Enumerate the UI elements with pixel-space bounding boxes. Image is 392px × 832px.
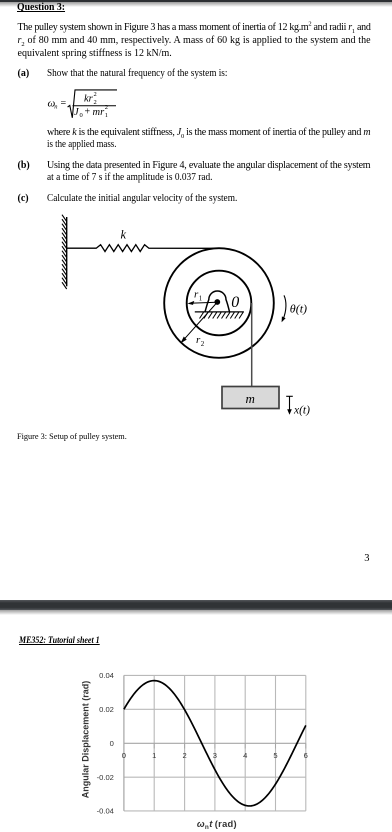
svg-text:0.04: 0.04 [99, 671, 114, 680]
svg-text:0: 0 [122, 751, 126, 760]
svg-text:0: 0 [110, 739, 114, 748]
svg-text:-0.02: -0.02 [97, 773, 114, 782]
svg-text:1: 1 [152, 751, 156, 760]
svg-text:2: 2 [182, 751, 186, 760]
svg-text:0.02: 0.02 [99, 705, 114, 714]
svg-text:3: 3 [213, 751, 217, 760]
svg-text:(rad): (rad) [212, 819, 237, 829]
svg-text:ω: ω [197, 819, 205, 829]
svg-text:6: 6 [304, 751, 308, 760]
svg-text:4: 4 [243, 751, 247, 760]
svg-text:-0.04: -0.04 [97, 807, 114, 816]
svg-text:Angular Displacement (rad): Angular Displacement (rad) [80, 681, 90, 799]
svg-text:5: 5 [273, 751, 277, 760]
